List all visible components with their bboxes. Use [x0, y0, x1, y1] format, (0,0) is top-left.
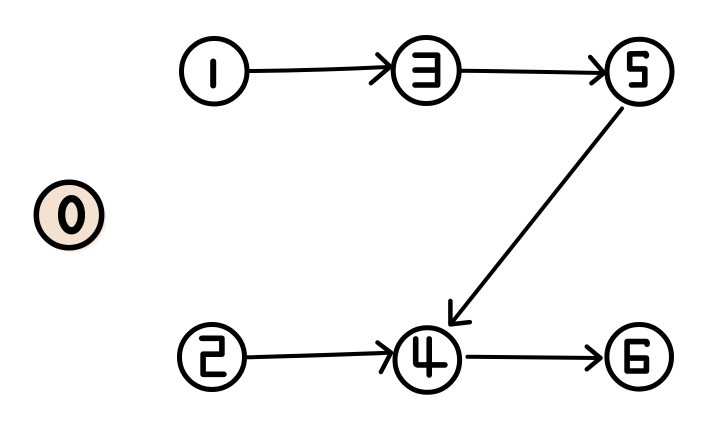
node 4: [395, 328, 460, 393]
node 6: [607, 325, 672, 390]
node 0 shadow: [39, 185, 106, 252]
node 0: [36, 182, 101, 247]
edge 1->3: [250, 54, 391, 83]
edge 5->4: [450, 109, 622, 325]
node 5: [607, 39, 672, 104]
edge 2->4: [246, 343, 391, 373]
edge 4->6: [468, 347, 601, 370]
node 2: [180, 325, 245, 390]
node 1: [182, 38, 248, 104]
node 3: [393, 38, 459, 104]
edge 3->5: [460, 57, 604, 83]
